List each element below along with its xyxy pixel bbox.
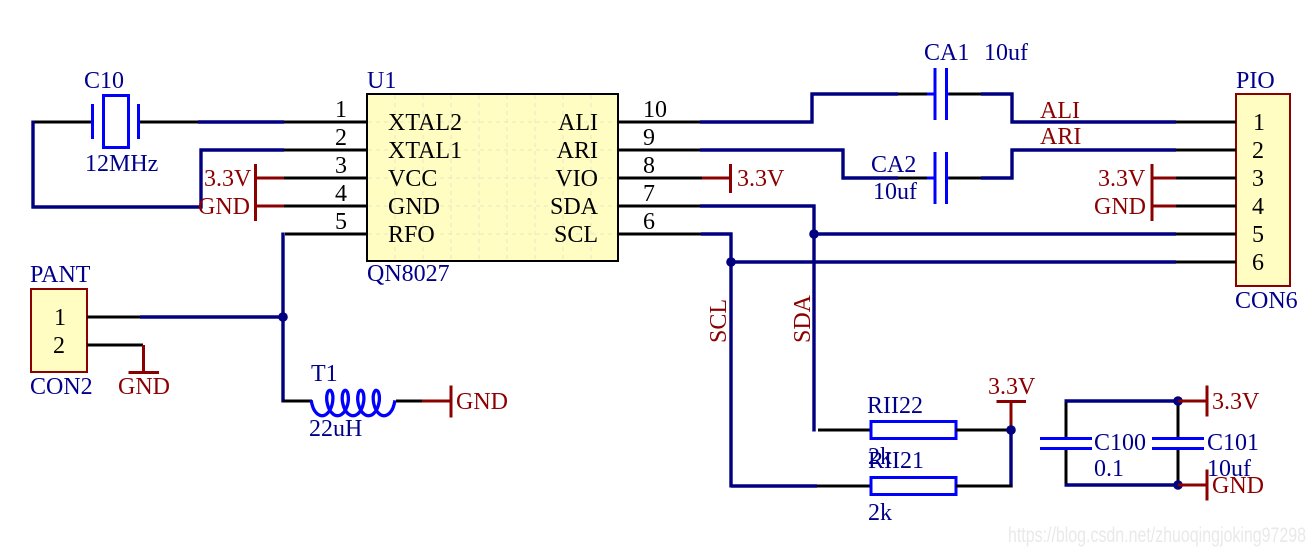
PIO pin number 4 — [1252, 194, 1264, 220]
svg-text:1: 1 — [54, 305, 66, 331]
CA1 value label 10uf — [984, 40, 1028, 66]
svg-text:GND: GND — [198, 194, 250, 220]
svg-text:4: 4 — [335, 181, 347, 207]
pin U1.9 stub ARI — [618, 149, 700, 152]
svg-text:8: 8 — [643, 153, 655, 179]
capacitor C100 pins (black) — [1065, 403, 1068, 484]
wire crystal to U1 pin 1 (navy) — [198, 120, 284, 123]
pin U1.2 stub — [284, 149, 367, 152]
svg-text:0.1: 0.1 — [1094, 456, 1124, 482]
RII21 designator label — [868, 448, 924, 474]
wire SCL to PIO pin 6 (navy) — [731, 260, 1176, 263]
capacitor C100 — [1040, 439, 1092, 449]
svg-text:GND: GND — [456, 389, 508, 415]
pin PIO.1 stub — [1176, 121, 1236, 124]
U1 pin name SDA — [550, 194, 599, 220]
wire SDA to PIO pin 5 (navy) — [814, 232, 1176, 235]
PIO designator label — [1236, 68, 1275, 94]
RII22 value label 2k — [868, 444, 892, 470]
svg-text:GND: GND — [1094, 194, 1146, 220]
svg-text:2: 2 — [1252, 138, 1264, 164]
ground GND bar at T1 — [422, 386, 451, 418]
svg-text:10uf: 10uf — [984, 40, 1028, 66]
ground GND at PANT pin 2 — [129, 345, 160, 373]
U1 pin number 4 — [335, 181, 347, 207]
wire SDA to RII22 (black pin) — [818, 429, 871, 432]
svg-text:VIO: VIO — [555, 166, 598, 192]
svg-text:ARI: ARI — [557, 138, 598, 164]
svg-text:C101: C101 — [1207, 430, 1259, 456]
C10 designator label — [84, 68, 124, 94]
svg-text:5: 5 — [335, 209, 347, 235]
U1 pin number 10 — [643, 97, 667, 123]
svg-text:ALI: ALI — [1040, 98, 1080, 124]
connector PANT CON2 body — [31, 289, 87, 372]
wire ALI from pin 10 (navy) — [700, 120, 814, 123]
wire XTAL1 loop left vertical — [31, 121, 34, 209]
RII22 designator label — [867, 393, 923, 419]
PIO pin number 1 — [1253, 110, 1265, 136]
svg-text:SCL: SCL — [706, 299, 732, 343]
T1 designator label — [311, 361, 338, 387]
wire SCL vertical — [729, 233, 732, 488]
PANT designator label — [30, 262, 91, 288]
svg-text:C10: C10 — [84, 68, 124, 94]
watermark — [1008, 524, 1306, 547]
U1 pin name XTAL2 — [388, 110, 462, 136]
node A antenna junction — [278, 312, 288, 322]
PANT value label CON2 — [30, 374, 93, 400]
net label ARI — [1040, 124, 1081, 150]
pin U1.10 stub ALI — [618, 121, 700, 124]
wire crystal left pin (black) — [32, 121, 92, 124]
svg-text:GND: GND — [118, 374, 170, 400]
wire antenna node down to T1 (black stub) — [283, 400, 312, 403]
U1 pin name RFO — [388, 222, 435, 248]
crystal C10 — [87, 96, 144, 148]
U1 pin number 6 — [643, 209, 655, 235]
PIO pin number 3 — [1252, 166, 1264, 192]
capacitor CA2 left pin (black) — [898, 177, 932, 180]
wire crystal right pin (black) — [140, 121, 198, 124]
PANT pin number 2 — [53, 333, 65, 359]
svg-text:3.3V: 3.3V — [1212, 389, 1260, 415]
U1 pin name VIO — [555, 166, 598, 192]
svg-text:RII22: RII22 — [867, 393, 923, 419]
wire C100 bottom rail (navy) — [1065, 483, 1179, 486]
T1 value label 22uH — [309, 416, 362, 442]
pin PANT.2 stub — [87, 344, 143, 347]
pin U1.8 stub VIO — [618, 177, 702, 180]
CA2 value label 10uf — [873, 179, 917, 205]
svg-text:RFO: RFO — [388, 222, 435, 248]
connector PIO CON6 body — [1236, 94, 1290, 286]
U1 pin name SCL — [554, 222, 598, 248]
wire PANT.1 to antenna node (navy) — [140, 315, 283, 318]
svg-text:PIO: PIO — [1236, 68, 1275, 94]
wire ALI top to CA1 left (navy) — [811, 92, 899, 95]
wire SDA vertical — [812, 205, 815, 432]
wire ARI dropper to CA2 — [841, 149, 844, 180]
U1 pin name ALI — [558, 110, 598, 136]
wire ARI from pin 9 (navy) — [700, 148, 845, 151]
capacitor C101 pins (black) — [1177, 403, 1180, 484]
svg-text:1: 1 — [1253, 110, 1265, 136]
PIO pin number 2 — [1252, 138, 1264, 164]
C100 designator label — [1094, 430, 1146, 456]
svg-text:10: 10 — [643, 97, 667, 123]
svg-text:T1: T1 — [311, 361, 338, 387]
svg-text:3: 3 — [1252, 166, 1264, 192]
net label GND at T1 — [456, 389, 508, 415]
capacitor CA2 — [927, 152, 954, 204]
U1 value label QN8027 — [367, 261, 450, 287]
wire XTAL1 to U1 pin 2 (navy) — [200, 148, 285, 151]
svg-text:XTAL1: XTAL1 — [388, 138, 462, 164]
pin U1.5 stub RFO — [285, 233, 367, 236]
U1 pin number 5 — [335, 209, 347, 235]
op-amp U1 QN8027 body — [367, 94, 618, 261]
svg-text:C100: C100 — [1094, 430, 1146, 456]
svg-text:3.3V: 3.3V — [204, 166, 252, 192]
svg-text:ALI: ALI — [558, 110, 598, 136]
PANT pin number 1 — [54, 305, 66, 331]
wire C100 top rail (navy) — [1065, 399, 1179, 402]
net label GND at PIO — [1094, 194, 1146, 220]
net label 3.3V at PIO — [1098, 166, 1146, 192]
net label ALI — [1040, 98, 1080, 124]
resistor RII21 right pin (black) — [956, 485, 1013, 488]
svg-text:2: 2 — [53, 333, 65, 359]
svg-text:12MHz: 12MHz — [85, 151, 158, 177]
U1 pin name VCC — [388, 166, 437, 192]
svg-text:3.3V: 3.3V — [988, 374, 1036, 400]
power 3.3V bar at U1 VCC/GND — [256, 164, 285, 221]
net label SCL (rotated) — [706, 299, 732, 343]
U1 pin number 7 — [643, 181, 655, 207]
net label GND at U1 — [198, 194, 250, 220]
pin U1.6 stub SCL — [618, 233, 701, 236]
wire ALI to PIO pin 1 (navy) — [1011, 120, 1177, 123]
C101 value label 10uf — [1207, 456, 1251, 482]
wire CA1 to PIO drop (navy) — [981, 92, 1014, 95]
svg-text:4: 4 — [1252, 194, 1264, 220]
net label 3.3V at C101 — [1212, 389, 1260, 415]
U1 pin number 8 — [643, 153, 655, 179]
svg-text:PANT: PANT — [30, 262, 91, 288]
pin U1.3 stub — [284, 177, 367, 180]
svg-text:5: 5 — [1252, 222, 1264, 248]
CA1 designator label — [924, 40, 969, 66]
svg-text:SDA: SDA — [790, 294, 816, 343]
wire ALI dropper at PIO side — [1010, 93, 1013, 124]
U1 pin number 2 — [335, 125, 347, 151]
U1 pin number 9 — [643, 125, 655, 151]
svg-text:6: 6 — [1252, 250, 1264, 276]
svg-text:9: 9 — [643, 125, 655, 151]
CA2 designator label — [871, 152, 916, 178]
C101 designator label — [1207, 430, 1259, 456]
capacitor C101 — [1152, 439, 1204, 449]
wire SCL bottom to RII21 (navy) — [731, 484, 817, 487]
svg-text:10uf: 10uf — [873, 179, 917, 205]
pin PIO.5 stub — [1176, 233, 1236, 236]
pin PIO.2 stub — [1176, 149, 1236, 152]
node resistor junction — [1006, 425, 1016, 435]
PIO value label CON6 — [1235, 288, 1298, 314]
pin PIO.6 stub — [1176, 261, 1236, 264]
wire CA2 to PIO riser (navy) — [981, 176, 1014, 179]
net label SDA (rotated) — [790, 294, 816, 343]
svg-text:CA2: CA2 — [871, 152, 916, 178]
svg-text:2k: 2k — [868, 500, 892, 526]
capacitor CA2 right pin (black) — [949, 177, 981, 180]
C100 value label 0.1 — [1094, 456, 1124, 482]
node SCL junction — [726, 257, 736, 267]
wire RFO corner down to antenna node — [281, 233, 284, 403]
resistor RII21 — [871, 478, 956, 495]
svg-text:SDA: SDA — [550, 194, 599, 220]
svg-text:6: 6 — [643, 209, 655, 235]
wire ARI to CA2 left (navy) — [842, 176, 899, 179]
wire resistor link vertical (navy) — [1009, 430, 1012, 488]
pin U1.1 stub — [284, 121, 367, 124]
svg-text:22uH: 22uH — [309, 416, 362, 442]
PIO pin number 6 — [1252, 250, 1264, 276]
resistor RII22 right pin (black) — [956, 429, 1011, 432]
U1 pin number 1 — [335, 97, 347, 123]
net label GND at C101 — [1212, 473, 1264, 499]
wire SCL from pin 6 (navy) — [701, 232, 733, 235]
svg-text:ARI: ARI — [1040, 124, 1081, 150]
resistor RII22 — [871, 422, 956, 439]
svg-text:XTAL2: XTAL2 — [388, 110, 462, 136]
power 3.3V bar at PIO pin 3 / ground at PIO pin 4 — [1152, 164, 1176, 221]
U1 pin name XTAL1 — [388, 138, 462, 164]
U1 pin name ARI — [557, 138, 598, 164]
node C101 top junction — [1173, 396, 1183, 406]
pin PANT.1 stub — [87, 316, 140, 319]
U1 pin name GND — [388, 194, 440, 220]
svg-text:3.3V: 3.3V — [1098, 166, 1146, 192]
svg-text:CON6: CON6 — [1235, 288, 1298, 314]
U1 designator label — [367, 68, 396, 94]
wire XTAL1 loop bottom horizontal — [32, 205, 203, 208]
svg-text:https://blog.csdn.net/zhuoqing: https://blog.csdn.net/zhuoqingjoking9729… — [1008, 524, 1306, 547]
U1 pin number 3 — [335, 153, 347, 179]
wire T1 right pin (black) — [396, 400, 422, 403]
wire SCL to RII21 (black pin) — [817, 485, 871, 488]
C10 value label 12MHz — [85, 151, 158, 177]
capacitor CA1 right pin (black) — [949, 93, 981, 96]
RII21 value label 2k — [868, 500, 892, 526]
svg-text:1: 1 — [335, 97, 347, 123]
power 3.3V bar above resistors — [997, 402, 1027, 428]
net label 3.3V at VIO — [737, 166, 785, 192]
capacitor CA1 — [927, 68, 954, 120]
svg-text:CA1: CA1 — [924, 40, 969, 66]
inductor T1 coil — [311, 390, 395, 415]
net label 3.3V at U1 — [204, 166, 252, 192]
svg-text:U1: U1 — [367, 68, 396, 94]
power 3.3V bar at C101 top — [1178, 386, 1207, 417]
svg-text:GND: GND — [388, 194, 440, 220]
net label 3.3V at resistors — [988, 374, 1036, 400]
node C101 bottom junction — [1173, 480, 1183, 490]
svg-text:2: 2 — [335, 125, 347, 151]
capacitor CA1 left pin (black) — [898, 93, 932, 96]
pin PIO.3 stub — [1176, 177, 1236, 180]
svg-text:GND: GND — [1212, 473, 1264, 499]
wire ARI riser at PIO side — [1010, 149, 1013, 180]
pin PIO.4 stub — [1176, 205, 1236, 208]
svg-text:7: 7 — [643, 181, 655, 207]
PIO pin number 5 — [1252, 222, 1264, 248]
net label GND at PANT — [118, 374, 170, 400]
svg-text:SCL: SCL — [554, 222, 598, 248]
svg-text:3: 3 — [335, 153, 347, 179]
wire SDA from pin 7 (navy) — [700, 204, 816, 207]
wire ARI to PIO pin 2 (navy) — [1011, 148, 1177, 151]
svg-text:CON2: CON2 — [30, 374, 93, 400]
svg-text:VCC: VCC — [388, 166, 437, 192]
svg-text:RII21: RII21 — [868, 448, 924, 474]
node SDA junction — [809, 229, 819, 239]
pin U1.7 stub SDA — [618, 205, 700, 208]
wire ALI riser to CA1 — [810, 93, 813, 124]
pin U1.4 stub — [284, 205, 367, 208]
svg-text:QN8027: QN8027 — [367, 261, 450, 287]
wire XTAL1 loop right vertical — [199, 149, 202, 209]
ground GND bar at C101 bottom — [1178, 470, 1207, 501]
svg-text:3.3V: 3.3V — [737, 166, 785, 192]
power 3.3V bar at U1 VIO — [702, 164, 731, 193]
